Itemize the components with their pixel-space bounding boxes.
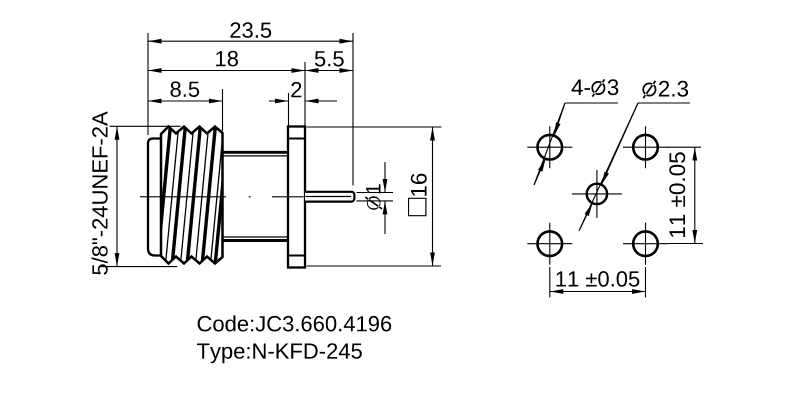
dimension 23.5 — [148, 40, 353, 42]
label 4-dia3 — [572, 79, 619, 97]
hole top-right — [633, 135, 658, 160]
dimension 5.5 — [305, 70, 353, 72]
center pin — [305, 192, 354, 202]
dimension 5/8-24UNEF-2A — [110, 125, 181, 127]
dimension dia 1 (pin) — [357, 192, 394, 194]
label dia2.3 — [642, 80, 688, 98]
body cylinder — [223, 151, 289, 154]
thread hatch lines — [157, 127, 228, 263]
hole center — [587, 184, 607, 204]
thread body outline — [161, 127, 223, 264]
connector back cap — [148, 139, 168, 256]
centerline — [140, 196, 304, 198]
dimension 2 — [269, 100, 289, 102]
dimension 8.5 — [148, 100, 223, 102]
code text — [198, 315, 392, 331]
dimension 11 horizontal — [549, 267, 551, 298]
mounting flange — [288, 127, 305, 268]
dimension square 16 — [307, 126, 442, 128]
dimension 18 — [148, 70, 305, 72]
type text — [197, 343, 362, 363]
dimension 11 vertical — [667, 146, 701, 148]
hole top-left — [538, 135, 563, 160]
extension lines — [148, 33, 353, 186]
hole bottom-right — [633, 231, 658, 256]
hole bottom-left — [538, 231, 563, 256]
